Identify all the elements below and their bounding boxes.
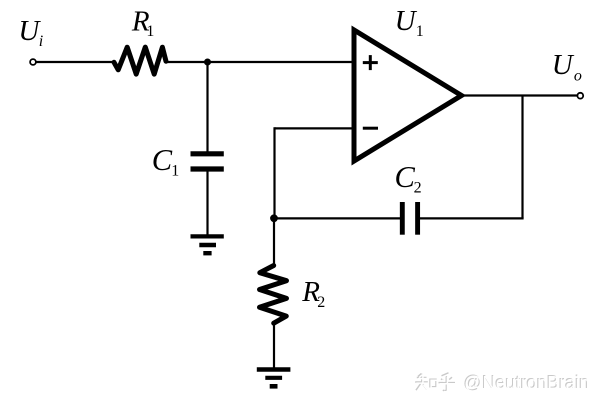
svg-text:@NeutronBrain: @NeutronBrain bbox=[464, 373, 590, 393]
svg-text:i: i bbox=[39, 33, 43, 50]
wire feedback horizontal right of C2 bbox=[420, 217, 524, 219]
wire minus input bbox=[275, 127, 353, 129]
ground under R2 bbox=[257, 370, 291, 387]
node Ui input terminal bbox=[30, 59, 36, 65]
svg-text:2: 2 bbox=[414, 180, 422, 197]
node junction dot at R1/C1 bbox=[204, 59, 211, 66]
label R1 bbox=[131, 5, 155, 40]
wire R1 to op-amp + input bbox=[166, 61, 352, 63]
label C2 bbox=[395, 160, 422, 196]
wire junction down to C1 bbox=[206, 62, 208, 152]
resistor R1 bbox=[114, 47, 166, 74]
node Uo output terminal bbox=[577, 93, 583, 99]
svg-text:C: C bbox=[395, 160, 416, 194]
wire minus input down to feedback node bbox=[273, 127, 275, 218]
svg-text:U: U bbox=[552, 49, 575, 81]
wire R2 to ground bbox=[273, 323, 275, 370]
svg-text:1: 1 bbox=[146, 23, 154, 40]
svg-text:C: C bbox=[152, 143, 173, 177]
label U1 bbox=[395, 5, 424, 40]
ground under C1 bbox=[191, 236, 224, 253]
op-amp plus sign bbox=[363, 55, 378, 70]
label R2 bbox=[301, 276, 325, 311]
svg-text:U: U bbox=[395, 5, 418, 37]
wire op-amp output bbox=[461, 94, 578, 96]
op-amp U1 bbox=[354, 30, 462, 161]
wire feedback node down to R2 bbox=[273, 218, 275, 266]
capacitor C2 bbox=[402, 202, 417, 235]
svg-text:1: 1 bbox=[416, 23, 424, 40]
wire C2 left to feedback node bbox=[274, 217, 400, 219]
label Ui bbox=[18, 15, 43, 50]
svg-text:2: 2 bbox=[317, 294, 325, 311]
wire feedback vertical from output bbox=[521, 96, 523, 219]
node feedback junction dot bbox=[270, 214, 278, 222]
watermark zhihu logo glyphs bbox=[415, 373, 455, 391]
capacitor C1 bbox=[191, 154, 224, 169]
svg-text:o: o bbox=[574, 67, 582, 84]
svg-text:1: 1 bbox=[171, 162, 179, 179]
op-amp minus sign bbox=[363, 127, 378, 130]
wire C1 to ground bbox=[206, 171, 208, 236]
label Uo bbox=[552, 49, 582, 85]
wire input to R1 bbox=[36, 61, 113, 63]
resistor R2 bbox=[260, 266, 287, 324]
label C1 bbox=[152, 143, 179, 179]
